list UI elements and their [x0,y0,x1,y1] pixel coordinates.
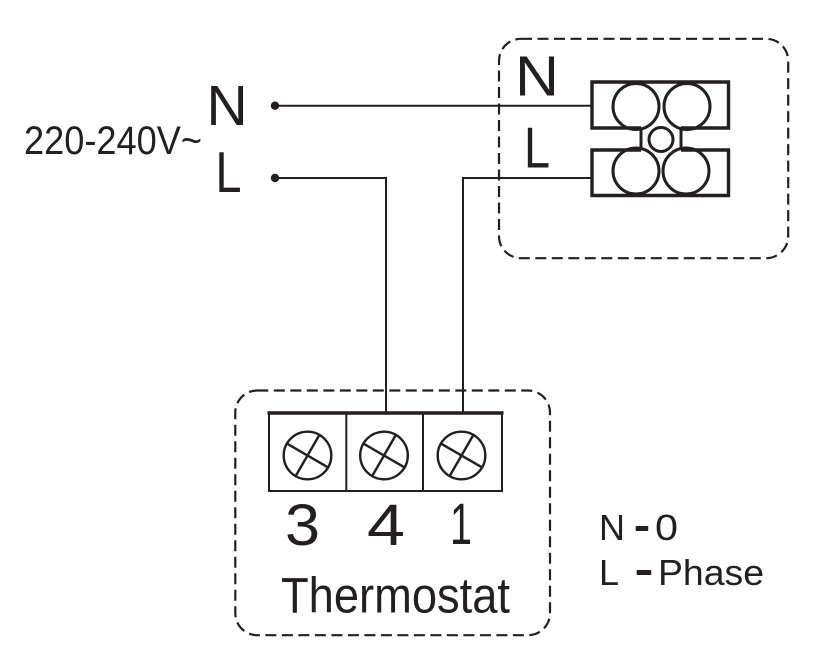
wire N: supply N to terminal block N [275,105,593,107]
svg-text:4: 4 [367,493,405,558]
terminal strip (3 cells) [268,413,504,491]
svg-text:Phase: Phase [658,552,764,593]
screw terminal 4 [360,432,408,480]
connector bridge between blocks [640,128,643,150]
screw circle center [649,128,673,152]
svg-text:N: N [207,74,248,138]
wire thermostat terminal 1 to terminal block L [463,178,593,414]
svg-text:220-240V~: 220-240V~ [24,119,202,163]
screw terminal 3 [284,432,332,480]
terminal block L (bottom) [592,148,729,196]
svg-text:0: 0 [655,507,678,548]
legend L - Phase [599,552,764,593]
svg-text:Thermostat: Thermostat [281,568,510,624]
dashed enclosure: receiver box [499,39,788,258]
dashed enclosure: thermostat [235,391,550,636]
svg-text:L: L [216,141,242,205]
svg-text:N: N [599,507,625,548]
legend N - 0 [599,507,678,548]
svg-text:1: 1 [450,492,472,557]
wire L to thermostat terminal 4 [275,178,386,414]
screw terminal 1 [438,432,486,480]
svg-text:L: L [599,552,619,593]
svg-text:3: 3 [285,493,320,558]
svg-text:L: L [524,117,550,181]
terminal block N (top) [592,82,729,130]
svg-text:N: N [515,45,559,109]
